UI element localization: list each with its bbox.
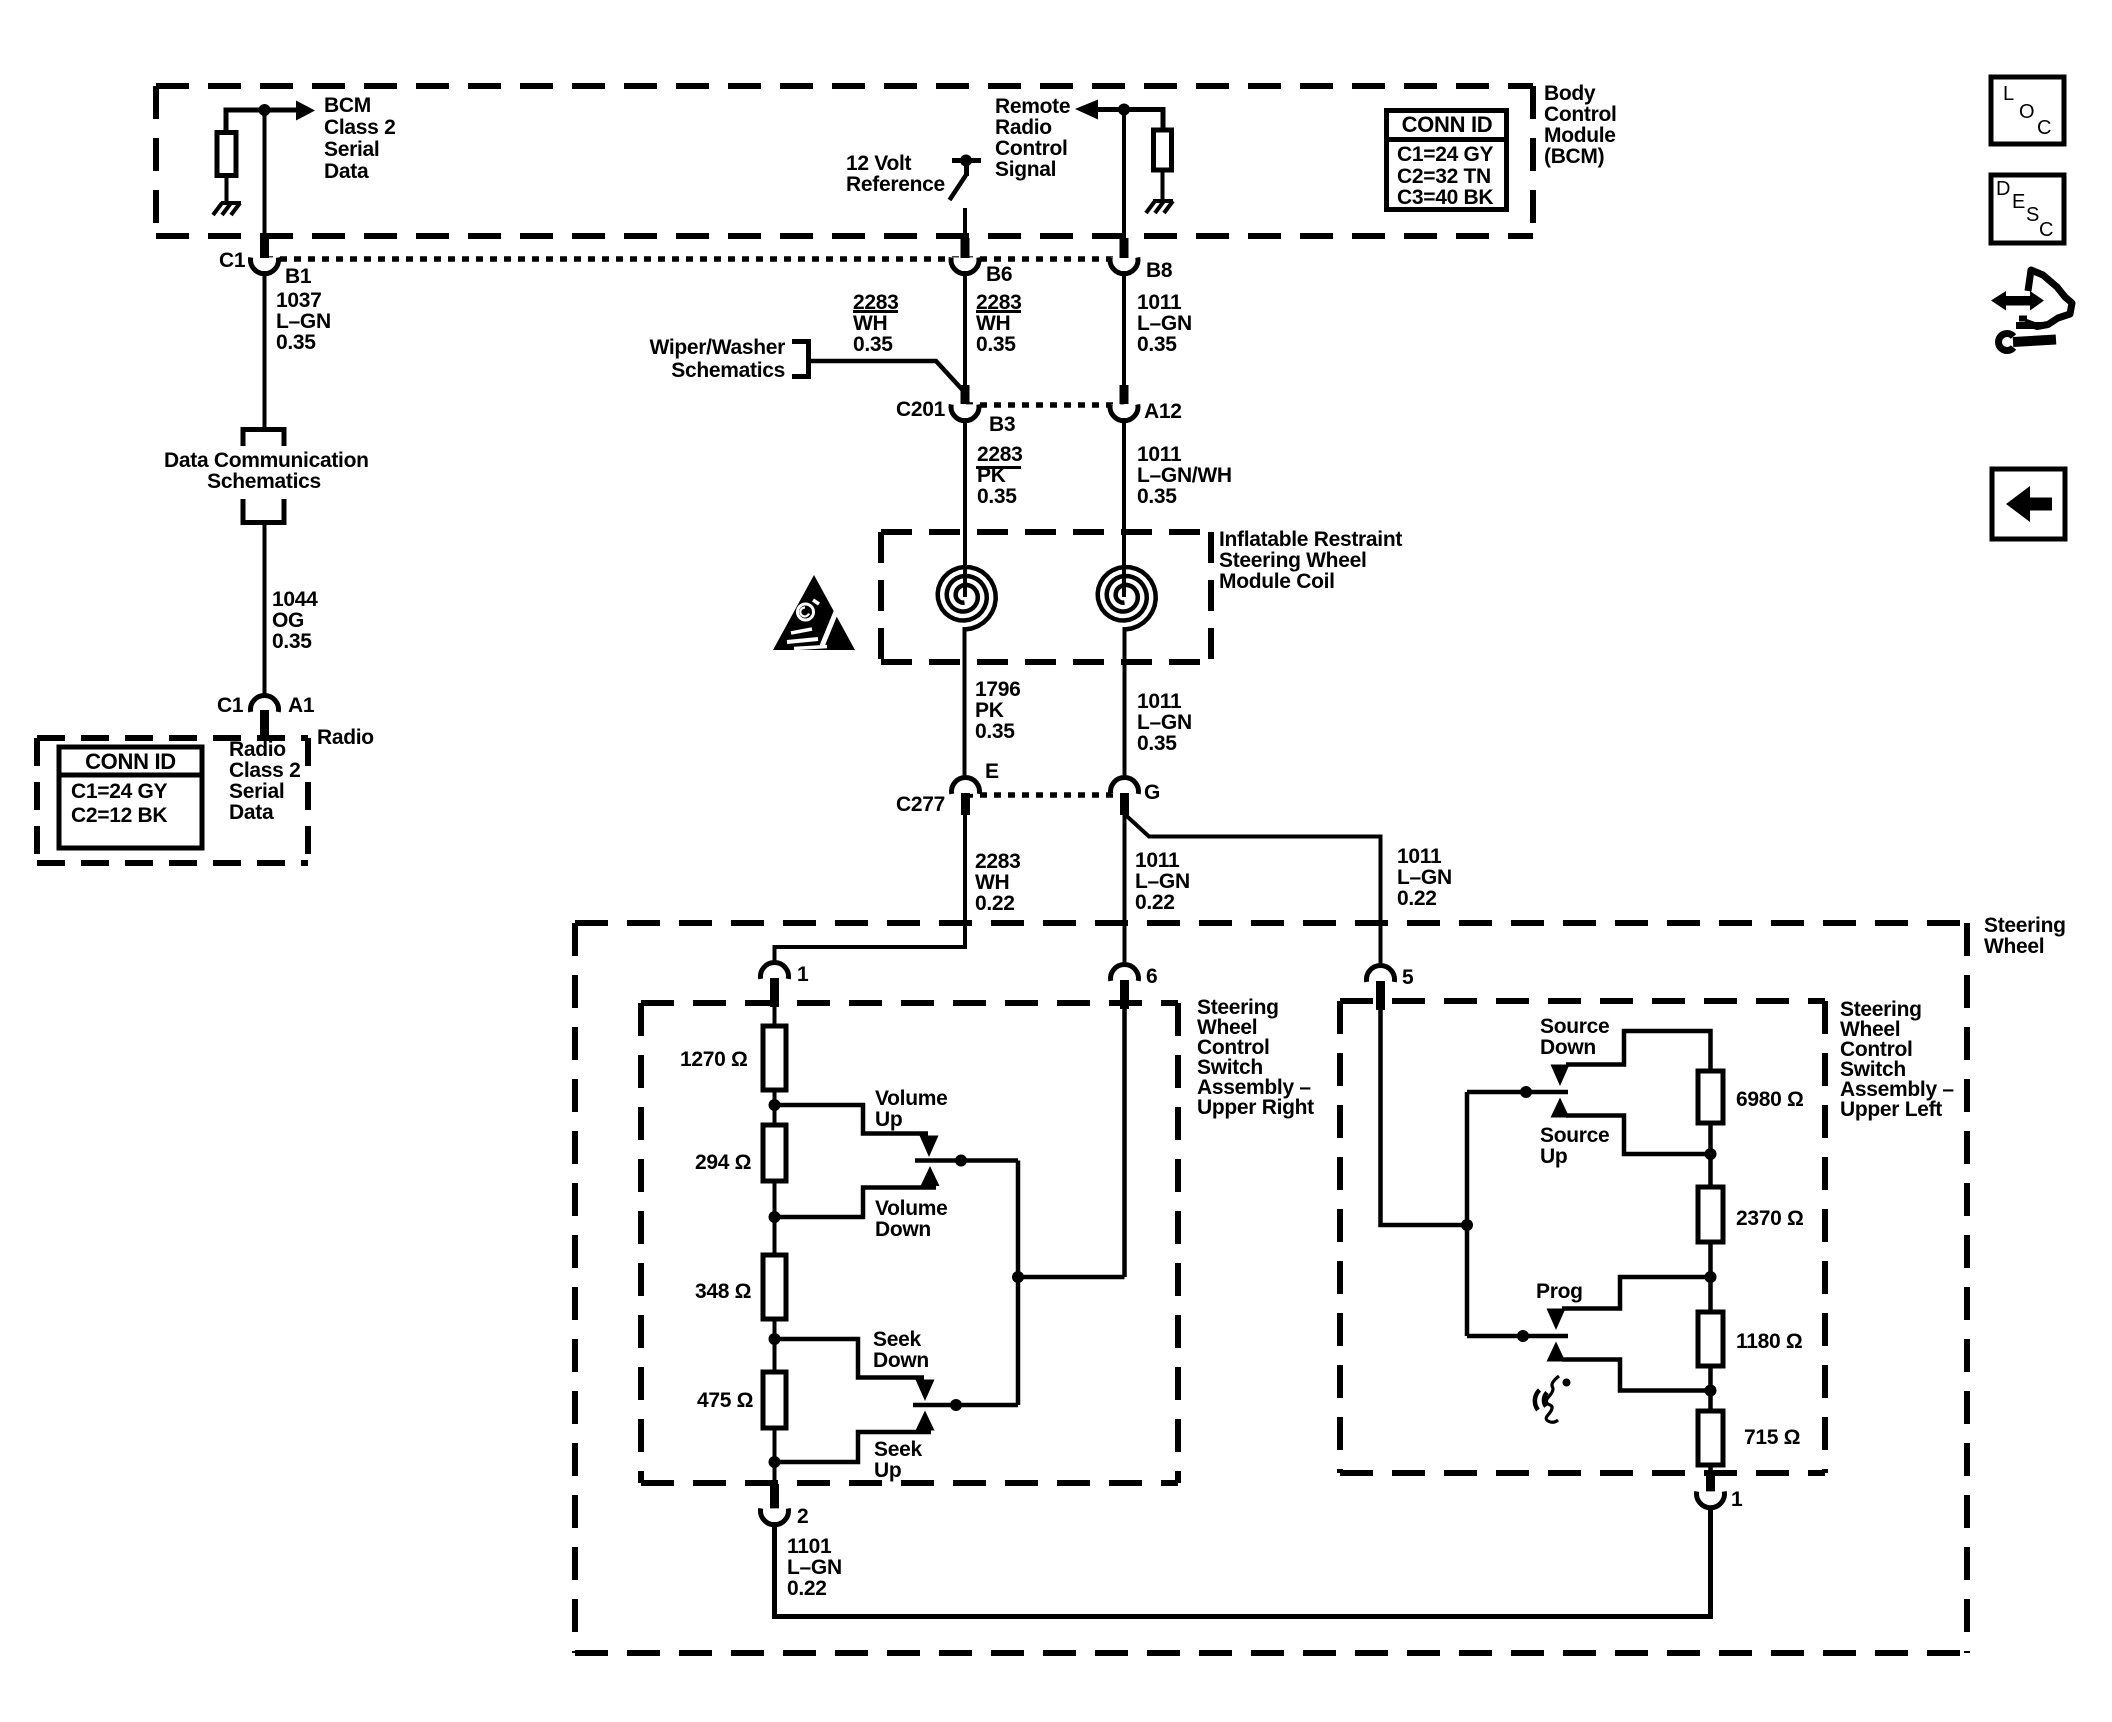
label Schematics (wiper) (600, 360, 785, 381)
junction node below 2370 (1705, 1271, 1717, 1283)
wire connector 1 to resistor chain (773, 1005, 777, 1028)
label resistor 6980 ohm (1736, 1089, 1804, 1110)
connector stub 5 (1376, 981, 1385, 1010)
junction node below 1270 (769, 1099, 781, 1111)
wire 2283 WH 0.22 to connector 1 (775, 814, 966, 966)
wire 1011 L-GN/WH below A12 (1122, 418, 1126, 597)
resistor 294 ohm (763, 1125, 786, 1181)
label wire 1796 PK 0.35 (975, 679, 1021, 742)
label Volume Up (875, 1088, 948, 1130)
wire remote resistor to ground (1161, 170, 1165, 201)
source down switch arrow (1551, 1065, 1570, 1087)
source up switch arrow (1551, 1098, 1570, 1118)
seek down switch arrow (916, 1380, 935, 1402)
connector stub B8 (1120, 238, 1129, 258)
wire chain segment (773, 1181, 777, 1257)
dotted connector line C1 BCM (266, 256, 1124, 262)
wire chain segment (1708, 1242, 1713, 1314)
label Steering Wheel (1984, 915, 2066, 957)
wire prog lower return (1562, 1360, 1711, 1391)
label resistor 1270 ohm (680, 1049, 748, 1070)
wire 1011 L-GN 0.22 to connector 6 (1123, 814, 1127, 968)
off-page bracket bottom (Data Communication) (243, 499, 284, 523)
wire seek up switch return (775, 1432, 932, 1462)
wire chain segment (1708, 1123, 1713, 1189)
dotted connector line C201 (966, 402, 1124, 408)
connector B6 (951, 257, 979, 273)
wire 1011 L-GN 0.22 branch to connector 5 (1125, 814, 1381, 969)
ground remote radio (1146, 201, 1173, 213)
wire 2283 WH below B6 (963, 271, 967, 387)
resistor 1180 ohm (1698, 1312, 1723, 1366)
label Volume Down (875, 1198, 948, 1240)
resistor BCM terminating (217, 133, 236, 176)
resistor remote radio pull-up (1154, 130, 1172, 170)
label C1 (radio connector) (217, 695, 243, 716)
label resistor 2370 ohm (1736, 1208, 1804, 1229)
label Radio Class 2 Serial Data (229, 739, 300, 823)
junction node above 294 (769, 1211, 781, 1223)
label C201 (896, 399, 945, 420)
Radio dashed box (37, 738, 308, 863)
connector 1 (upper right assembly) (761, 963, 789, 979)
resistor 1270 ohm (763, 1026, 786, 1090)
inflatable restraint coil dashed box (881, 532, 1211, 662)
label wire 2283 WH 0.35 (B6) (976, 292, 1022, 355)
icon DESC letters (1996, 179, 2010, 199)
icon LOC box (1991, 77, 2064, 144)
connector B8 (1110, 257, 1138, 273)
connector C1 pin B1 (251, 257, 279, 273)
wire prog upper to junction (1562, 1277, 1711, 1309)
connector 5 (1367, 966, 1395, 982)
label pin E (985, 761, 999, 782)
wire source down to chain top (1566, 1031, 1711, 1071)
label pin 6 (1146, 966, 1157, 987)
connector G (1111, 778, 1139, 794)
seek switch contact line (913, 1403, 1018, 1408)
label pin 2 (797, 1506, 808, 1527)
label CONN ID title (radio) (59, 751, 202, 772)
underline circuit 2283 (B6 label) (976, 310, 1021, 313)
junction dot BCM serial data (259, 104, 271, 116)
wire chain segment (773, 1319, 777, 1374)
label wire 1037 L-GN 0.35 (276, 290, 331, 353)
label Source Down (1540, 1016, 1609, 1058)
label wire 1044 OG 0.35 (272, 589, 318, 652)
label Steering Wheel Control Switch Assembly Upper Right (1197, 998, 1314, 1118)
wire 12 volt reference pigtail (950, 161, 982, 201)
label Prog (1536, 1281, 1583, 1302)
resistor 475 ohm (763, 1372, 786, 1428)
connector stub B1 (260, 236, 269, 258)
connector stub 2 (770, 1484, 779, 1509)
wire chain to connector 1 (1708, 1465, 1713, 1475)
label resistor 475 ohm (697, 1390, 753, 1411)
junction dot prog contact (1517, 1330, 1529, 1342)
label pin B3 (989, 414, 1015, 435)
icon vehicle outline with arrow and wrench (1991, 270, 2072, 351)
connector 1 (upper left assembly) (1697, 1491, 1725, 1507)
icon LOC letters (2003, 84, 2014, 104)
wire volume up switch feed (775, 1105, 929, 1134)
label C277 (896, 794, 945, 815)
arrow to BCM Class 2 Serial Data (296, 101, 315, 121)
icon back arrow box (1992, 469, 2065, 539)
BCM module dashed box (156, 86, 1533, 236)
connector stub A12 (1120, 385, 1129, 404)
label CONN ID title (BCM) (1387, 114, 1507, 135)
label Body Control Module (BCM) (1544, 83, 1617, 167)
connector 6 (1111, 965, 1139, 981)
connector 2 (761, 1508, 789, 1524)
wire from wiper/washer schematics (809, 361, 964, 391)
prog switch contact line (1467, 1334, 1568, 1339)
connector C1 pin A1 (radio) (251, 696, 279, 712)
wire common to connector 6 (1018, 1275, 1125, 1280)
connector stub B6 (961, 238, 970, 258)
label Seek Down (873, 1329, 929, 1371)
connector C201 pin B3 (951, 404, 979, 420)
label pin G (1144, 782, 1160, 803)
wire B6 into BCM (963, 208, 967, 240)
underline circuit 2283 (B3 label) (976, 466, 1021, 469)
connector stub E (961, 793, 970, 815)
label pin B1 (285, 266, 311, 287)
volume up switch arrow (920, 1136, 939, 1158)
wire 1796 PK below coil (963, 627, 967, 781)
phone voice icon (1535, 1376, 1571, 1422)
label BCM connector IDs (1397, 144, 1493, 209)
wire chain to connector 2 (773, 1428, 777, 1485)
label C1 (BCM connector) (219, 250, 245, 271)
wire 1101 L-GN to bottom (775, 1510, 1711, 1617)
label resistor 348 ohm (695, 1281, 751, 1302)
volume switch contact line (915, 1158, 1018, 1163)
wire chain segment (773, 1090, 777, 1127)
connector stub 6 (1120, 980, 1129, 1009)
label Remote Radio Control Signal (995, 96, 1070, 180)
label Radio (317, 727, 374, 748)
ground BCM (213, 203, 241, 215)
wire 1011 below B8 (1122, 271, 1126, 387)
label Data Communication Schematics (164, 450, 364, 492)
wire 1044 OG (263, 523, 267, 699)
wire connector 6 vertical (1122, 1007, 1127, 1277)
steering wheel outer dashed box (575, 923, 1967, 1653)
label wire 1101 L-GN 0.22 (787, 1536, 842, 1599)
resistor 6980 ohm (1698, 1071, 1723, 1123)
wire seek down switch feed (775, 1339, 925, 1378)
source switch contact line (1467, 1090, 1568, 1095)
connector stub A1 (260, 710, 269, 740)
label pin 1 (upper left) (1731, 1489, 1742, 1510)
label 12 Volt Reference (846, 153, 945, 195)
wire resistor to ground (225, 175, 229, 203)
arrow to Remote Radio Control Signal (1075, 100, 1098, 120)
wire volume down switch return (775, 1188, 937, 1218)
prog down switch arrow (1547, 1309, 1566, 1331)
junction node above 475 (769, 1333, 781, 1345)
label wire 1011 L-GN 0.22 (to 6) (1135, 850, 1190, 913)
wire connector 5 to source contact (1381, 1008, 1468, 1225)
dotted connector line C277 (966, 792, 1124, 798)
wire 1037 L-GN (263, 271, 267, 429)
icon DESC box (1991, 175, 2064, 243)
wire remote radio control (1096, 110, 1163, 132)
junction dot remote radio (1118, 104, 1130, 116)
icon back arrow (2006, 486, 2052, 522)
connector stub C201 (961, 385, 970, 404)
junction node below 1180 (1705, 1385, 1717, 1397)
label wire 1011 L-GN 0.35 (B8) (1137, 292, 1192, 355)
label wire 1011 L-GN 0.22 (to 5) (1397, 846, 1452, 909)
label BCM Class 2 Serial Data (324, 95, 395, 183)
label Wiper/Washer (600, 337, 785, 358)
seek up switch arrow (916, 1411, 935, 1431)
coil spiral left (SRS coil) (938, 567, 996, 630)
label Inflatable Restraint Steering Wheel Module Coil (1219, 529, 1402, 592)
label pin B6 (986, 264, 1012, 285)
coil spiral right (SRS coil) (1098, 567, 1156, 630)
upper right switch assembly dashed box (641, 1003, 1178, 1483)
label wire 2283 WH 0.35 (wiper) (853, 292, 899, 355)
connector C277 pin E (952, 778, 980, 794)
SRS warning triangle (773, 575, 855, 650)
wire BCM serial data horizontal (226, 110, 297, 134)
label wire 1011 L-GN/WH 0.35 (1137, 444, 1232, 507)
CONN ID table (BCM) (1386, 111, 1507, 210)
wire B8 down from BCM (1122, 109, 1126, 240)
label wire 2283 WH 0.22 (975, 851, 1021, 914)
wire common vertical (upper left) (1465, 1092, 1470, 1336)
resistor 2370 ohm (1698, 1187, 1723, 1242)
label Steering Wheel Control Switch Assembly Upper Left (1840, 1000, 1954, 1120)
wire chain segment (1708, 1366, 1713, 1413)
label resistor 715 ohm (1744, 1427, 1800, 1448)
connector stub 1 (bottom) (1706, 1473, 1715, 1492)
wire 1011 L-GN below coil (1123, 627, 1127, 781)
connector stub 1 (770, 978, 779, 1007)
label C1=24 GY / C2=12 BK (71, 780, 167, 828)
label Source Up (1540, 1125, 1609, 1167)
wire source up return (1566, 1116, 1711, 1155)
label pin A1 (288, 695, 314, 716)
label wire 1011 L-GN 0.35 (G) (1137, 691, 1192, 754)
label wire 2283 PK 0.35 (977, 444, 1023, 507)
label pin 1 (upper right) (797, 964, 808, 985)
junction dot seek contact (950, 1399, 962, 1411)
junction dot source contact (1520, 1086, 1532, 1098)
underline circuit 2283 (wiper label) (853, 310, 898, 313)
junction dot common to connector 6 (1012, 1271, 1024, 1283)
label Seek Up (874, 1439, 922, 1481)
junction dot on common vertical (1461, 1219, 1473, 1231)
wiper/washer off-page bracket (792, 342, 809, 377)
label pin 5 (1402, 967, 1413, 988)
label pin B8 (1146, 260, 1172, 281)
connector stub G (1120, 793, 1129, 815)
resistor 348 ohm (763, 1255, 786, 1319)
label resistor 294 ohm (695, 1152, 751, 1173)
wire switch common vertical (1016, 1161, 1021, 1406)
resistor 715 ohm (1698, 1411, 1723, 1465)
junction dot 12 volt reference (960, 155, 972, 167)
junction node below 475 (769, 1456, 781, 1468)
label pin A12 (1144, 401, 1182, 422)
CONN ID table (radio) (59, 747, 202, 848)
prog up switch arrow (1547, 1342, 1566, 1362)
junction dot volume contact (955, 1155, 967, 1167)
junction node below 6980 (1705, 1148, 1717, 1160)
wire 2283 PK below C201 (963, 418, 967, 597)
label resistor 1180 ohm (1736, 1331, 1802, 1352)
connector A12 (1110, 404, 1138, 420)
off-page bracket top (Data Communication) (243, 430, 284, 447)
volume down switch arrow (921, 1166, 940, 1186)
upper left switch assembly dashed box (1340, 1001, 1825, 1473)
wire B1 down from BCM (263, 110, 267, 238)
